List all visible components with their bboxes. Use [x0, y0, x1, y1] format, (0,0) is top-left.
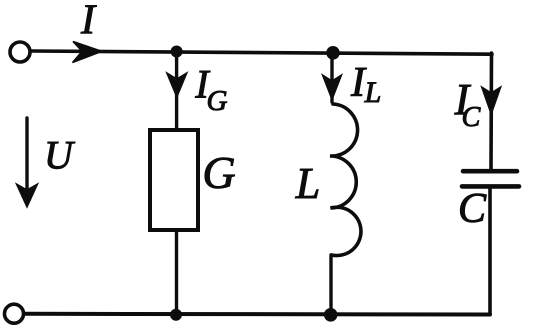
svg-text:L: L	[364, 76, 382, 109]
svg-text:C: C	[462, 102, 481, 133]
wire bottom	[24, 312, 491, 317]
inductor L	[330, 104, 361, 256]
arrow U	[25, 118, 28, 198]
wire right vertical bottom	[488, 186, 492, 314]
svg-text:I: I	[80, 0, 97, 44]
arrow I_L	[323, 75, 342, 100]
node junction top G	[171, 46, 183, 58]
arrow I_C	[482, 87, 501, 114]
wire L bottom	[329, 255, 332, 315]
svg-text:G: G	[202, 147, 235, 198]
node junction bottom L	[324, 308, 338, 322]
svg-text:L: L	[295, 159, 320, 208]
arrow I_G	[167, 73, 187, 97]
terminal top-left	[10, 42, 30, 62]
resistor G	[150, 130, 198, 230]
node junction bottom G	[170, 309, 182, 321]
arrow I	[73, 42, 103, 63]
wire G top	[175, 52, 178, 131]
svg-text:C: C	[458, 186, 487, 232]
wire right vertical top	[489, 53, 493, 169]
terminal bottom-left	[5, 304, 24, 323]
wire top	[31, 51, 492, 54]
svg-text:G: G	[207, 85, 228, 117]
wire G bottom	[175, 230, 178, 315]
wire L top	[330, 53, 333, 103]
svg-text:U: U	[44, 133, 76, 178]
node junction top L	[326, 46, 340, 60]
capacitor C	[463, 169, 517, 174]
